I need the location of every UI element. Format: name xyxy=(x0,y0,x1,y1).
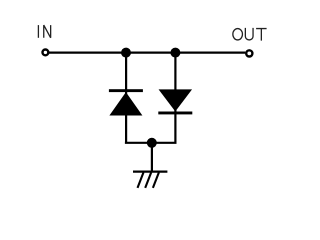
diode D1 xyxy=(109,89,143,115)
junction node A xyxy=(121,48,131,58)
junction node B xyxy=(170,48,180,58)
label OUT xyxy=(233,28,267,41)
junction ground node xyxy=(147,138,157,148)
diode D2 xyxy=(158,89,192,114)
wire top rail xyxy=(49,51,246,53)
ground xyxy=(133,172,167,188)
wire ground stub xyxy=(151,143,153,172)
wire bottom rail xyxy=(125,142,177,144)
wire left branch vertical xyxy=(125,53,127,143)
node IN terminal xyxy=(43,50,49,56)
label IN xyxy=(38,25,50,38)
node OUT terminal xyxy=(246,50,252,56)
wire right branch vertical xyxy=(174,53,176,143)
